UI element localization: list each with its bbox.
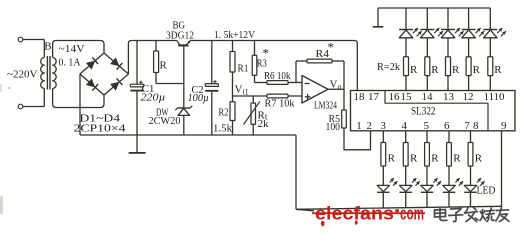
svg-text:220µ: 220µ <box>141 92 166 104</box>
svg-text:100µ: 100µ <box>188 92 210 104</box>
svg-text:R: R <box>473 64 481 76</box>
svg-text:LED: LED <box>477 185 496 197</box>
svg-text:3: 3 <box>380 120 386 132</box>
svg-text:11: 11 <box>484 91 495 103</box>
svg-text:R: R <box>388 153 396 165</box>
svg-text:Vo: Vo <box>330 79 342 92</box>
svg-text:LM324: LM324 <box>314 100 337 112</box>
svg-text:~14V: ~14V <box>59 43 85 55</box>
svg-text:18: 18 <box>354 91 366 103</box>
svg-text:elecfans: elecfans <box>315 203 394 224</box>
svg-text:com: com <box>400 203 424 224</box>
svg-text:*: * <box>263 46 270 61</box>
svg-text:SL322: SL322 <box>411 106 436 118</box>
svg-text:2CP10×4: 2CP10×4 <box>74 123 127 135</box>
svg-text:16: 16 <box>389 91 401 103</box>
svg-text:B: B <box>44 41 51 53</box>
svg-text:R: R <box>431 64 439 76</box>
svg-text:8: 8 <box>473 120 479 132</box>
svg-text:Vi1: Vi1 <box>235 84 249 97</box>
svg-text:R: R <box>160 60 168 72</box>
svg-text:3DG12: 3DG12 <box>166 30 194 42</box>
svg-text:R=2k: R=2k <box>377 61 400 73</box>
svg-text:0. 1A: 0. 1A <box>59 57 81 69</box>
svg-text:R7 10k: R7 10k <box>265 98 295 110</box>
svg-text:R: R <box>410 153 418 165</box>
svg-text:*: * <box>328 40 335 55</box>
svg-text:9: 9 <box>501 120 507 132</box>
svg-text:1: 1 <box>356 120 362 132</box>
svg-text:R: R <box>453 153 461 165</box>
svg-text:6: 6 <box>444 120 450 132</box>
svg-text:R: R <box>410 64 418 76</box>
svg-text:2: 2 <box>367 120 373 132</box>
svg-text:7: 7 <box>464 120 470 132</box>
svg-text:1.5k: 1.5k <box>213 123 232 135</box>
svg-text:R6 10k: R6 10k <box>264 70 291 82</box>
svg-text:2CW20: 2CW20 <box>149 115 181 127</box>
svg-text:R: R <box>431 153 439 165</box>
svg-text:15: 15 <box>401 91 413 103</box>
svg-text:R: R <box>475 153 483 165</box>
svg-text:R2: R2 <box>219 107 229 119</box>
svg-text:R: R <box>452 64 460 76</box>
svg-text:17: 17 <box>368 91 380 103</box>
svg-text:R1: R1 <box>238 63 249 75</box>
svg-text:10: 10 <box>494 91 506 103</box>
svg-text:5: 5 <box>424 120 430 132</box>
svg-text:2k: 2k <box>258 118 270 130</box>
svg-text:12: 12 <box>463 91 474 103</box>
svg-text:13: 13 <box>443 91 455 103</box>
svg-text:4: 4 <box>402 120 408 132</box>
svg-text:14: 14 <box>422 91 434 103</box>
svg-text:100: 100 <box>326 121 341 133</box>
svg-text:~220V: ~220V <box>7 69 38 81</box>
svg-text:R: R <box>494 64 502 76</box>
svg-text:1. 5k+12V: 1. 5k+12V <box>214 29 255 41</box>
